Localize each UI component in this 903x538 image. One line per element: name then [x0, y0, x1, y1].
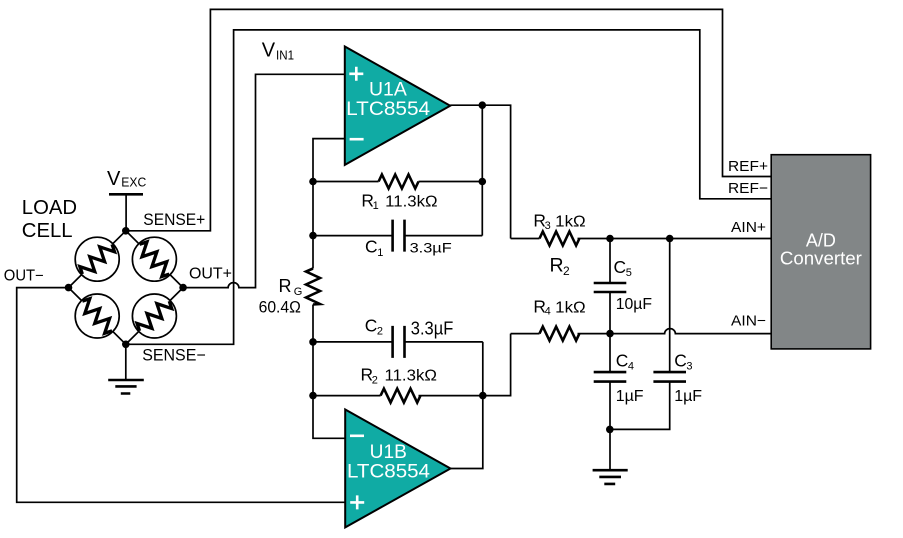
svg-text:LTC8554: LTC8554 [347, 462, 430, 483]
svg-text:60.4Ω: 60.4Ω [259, 299, 301, 317]
svg-text:2: 2 [372, 375, 378, 387]
svg-text:R: R [279, 276, 292, 296]
svg-text:R: R [550, 255, 564, 277]
svg-text:2: 2 [377, 326, 383, 338]
svg-text:1µF: 1µF [674, 388, 702, 405]
svg-text:1: 1 [373, 200, 379, 212]
svg-text:3: 3 [686, 360, 692, 372]
svg-text:OUT+: OUT+ [189, 265, 232, 282]
svg-text:CELL: CELL [22, 220, 73, 242]
svg-text:U1A: U1A [369, 79, 407, 100]
svg-text:1kΩ: 1kΩ [555, 299, 586, 316]
svg-text:AIN+: AIN+ [731, 219, 766, 236]
svg-text:IN1: IN1 [276, 47, 294, 62]
svg-text:1µF: 1µF [616, 388, 644, 405]
svg-text:U1B: U1B [370, 442, 407, 463]
svg-text:1kΩ: 1kΩ [555, 214, 586, 231]
svg-text:4: 4 [628, 360, 634, 372]
svg-text:C: C [674, 350, 687, 370]
svg-text:4: 4 [545, 306, 551, 318]
svg-text:G: G [294, 286, 303, 298]
svg-text:Converter: Converter [780, 249, 862, 269]
svg-text:3: 3 [545, 220, 551, 232]
svg-text:REF−: REF− [728, 180, 768, 197]
svg-text:V: V [262, 40, 276, 62]
svg-text:C: C [365, 316, 378, 336]
svg-text:C: C [365, 237, 378, 257]
svg-text:OUT−: OUT− [4, 267, 44, 284]
svg-text:AIN−: AIN− [731, 313, 766, 330]
svg-text:11.3kΩ: 11.3kΩ [385, 368, 437, 385]
svg-text:V: V [107, 168, 121, 190]
svg-text:LOAD: LOAD [22, 197, 77, 219]
svg-text:C: C [616, 350, 629, 370]
svg-text:10µF: 10µF [616, 296, 653, 313]
svg-text:SENSE+: SENSE+ [143, 211, 205, 229]
svg-text:11.3kΩ: 11.3kΩ [385, 194, 437, 211]
svg-text:SENSE−: SENSE− [142, 347, 206, 365]
svg-text:C: C [614, 257, 627, 277]
svg-text:3.3µF: 3.3µF [410, 240, 452, 256]
svg-text:5: 5 [626, 267, 632, 279]
svg-text:A/D: A/D [806, 231, 836, 251]
svg-text:REF+: REF+ [728, 158, 768, 175]
svg-text:3.3µF: 3.3µF [411, 318, 454, 338]
svg-text:1: 1 [377, 247, 383, 259]
svg-text:EXC: EXC [121, 175, 146, 190]
svg-text:LTC8554: LTC8554 [346, 99, 430, 120]
svg-text:2: 2 [563, 264, 570, 278]
